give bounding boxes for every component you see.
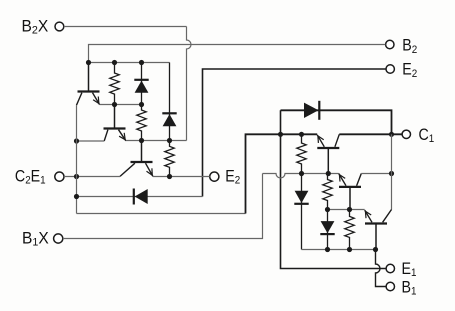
label C1 [419,126,435,145]
node rail3 / D6 / R5 [325,207,330,212]
wire freewheel line left [77,196,203,198]
transistor Q5 [339,174,362,210]
node collector bus / Q2 collector [74,138,79,143]
node rail2 / R2 / Q3 base [139,138,144,143]
label E2 top [402,61,417,80]
resistor R6 [345,210,354,250]
wire rail1 (Q1 emitter / Q2 base) [100,104,142,106]
diode D8 (right freewheel) [304,101,319,120]
label E2 middle [225,168,240,187]
diode D7 (left freewheel) [134,189,148,205]
wire B1X [63,174,263,239]
resistor R2 [137,105,146,141]
label B1X [22,230,49,248]
node B2 rail / R1 [112,60,117,65]
resistor R5 [323,174,332,210]
diode D1 [134,63,148,105]
svg-text:B1X: B1X [22,230,49,248]
wire E1 bus vertical and E1 wire [281,110,386,268]
terminal E1 [386,264,394,272]
diode D6 [320,210,334,250]
node base rail / R4 / D5 [299,171,304,176]
terminal B2X [55,22,64,31]
terminal C1 [402,130,410,138]
wire C1 rail right segment [339,133,402,135]
wire rail3 (Q5 base / Q6 emitter) [328,209,365,211]
node C1 rail / E1 bus [278,132,283,137]
terminal E2 top [386,65,394,73]
terminal B1X [54,234,63,243]
transistor Q1 [77,63,100,106]
svg-text:B2X: B2X [22,18,49,36]
wire B2X horizontal [64,26,187,28]
wire C1 rail left segment [246,134,318,213]
wire E2 top [203,69,386,197]
wire collector bus vertical right [391,134,393,209]
label C2E1 [15,168,46,187]
resistor R4 [297,134,306,173]
node B1 rail / R6 [347,247,352,252]
wire C2E1 to Q3 collector [64,176,120,178]
node freewheel line / collector bus [74,194,79,199]
label E1 [402,260,417,279]
svg-text:E2: E2 [402,61,417,80]
wire Q3 emitter to E2 [153,176,210,178]
terminal B2 [386,40,394,48]
wire B2 [89,45,386,63]
node rail2 / D2 / R3 [167,138,172,143]
wire rail2 (Q2 emitter / Q3 base) [126,140,187,142]
node B2 rail / Q1 base [86,60,91,65]
node collector bus / Q5 collector [389,171,394,176]
node base rail / Q4 base [326,171,331,176]
svg-text:E2: E2 [225,168,240,187]
svg-text:C1: C1 [419,126,435,145]
wire link C2E1 to right block emitter [77,213,246,215]
node B2 rail / D1 [139,60,144,65]
diode D2 [162,63,176,141]
node C1 rail / freewheel loop [389,132,394,137]
node rail3 / R6 / Q5 base [347,207,352,212]
wire Q5 collector to collector bus [361,173,391,175]
node rail1 / R1 / Q2 base [112,102,117,107]
svg-text:E1: E1 [402,260,417,279]
terminal C2E1 [55,172,64,181]
node rail1 / D1 [139,102,144,107]
wire B1 with hop over E1 wire [376,250,386,287]
wire freewheel line right (C1 top loop) [281,110,392,134]
diode D5 [294,174,308,250]
terminal B1 [386,282,394,290]
terminal E2 middle [210,172,219,181]
wire base rail B2 (left block top rail) [89,62,170,64]
wire B2X vertical with hop over B2 wire [187,27,192,141]
node B1 rail / D6 [325,247,330,252]
node E2 wire / R3 [167,174,172,179]
transistor Q4 [317,134,339,173]
transistor Q6 [365,210,392,250]
svg-text:C2E1: C2E1 [15,168,46,187]
node C2E1 / collector bus [74,174,79,179]
wire collector bus vertical [76,105,78,213]
wire Q2 collector to collector bus [77,140,105,142]
label B2 [402,37,417,56]
wire base rail B1 (right block bottom rail) [302,249,376,251]
node C1 rail / R4 [299,132,304,137]
resistor R1 [110,63,119,105]
node B1 rail / Q6 base / B1 [373,247,378,252]
transistor Q3 [120,141,153,177]
resistor R3 [165,141,174,177]
label B2X [22,18,49,36]
svg-text:B2: B2 [402,37,417,56]
label B1 [402,279,417,298]
wire Q4 base rail with hop over E1 bus [263,174,339,179]
svg-text:B1: B1 [402,279,417,298]
transistor Q2 [104,105,126,142]
